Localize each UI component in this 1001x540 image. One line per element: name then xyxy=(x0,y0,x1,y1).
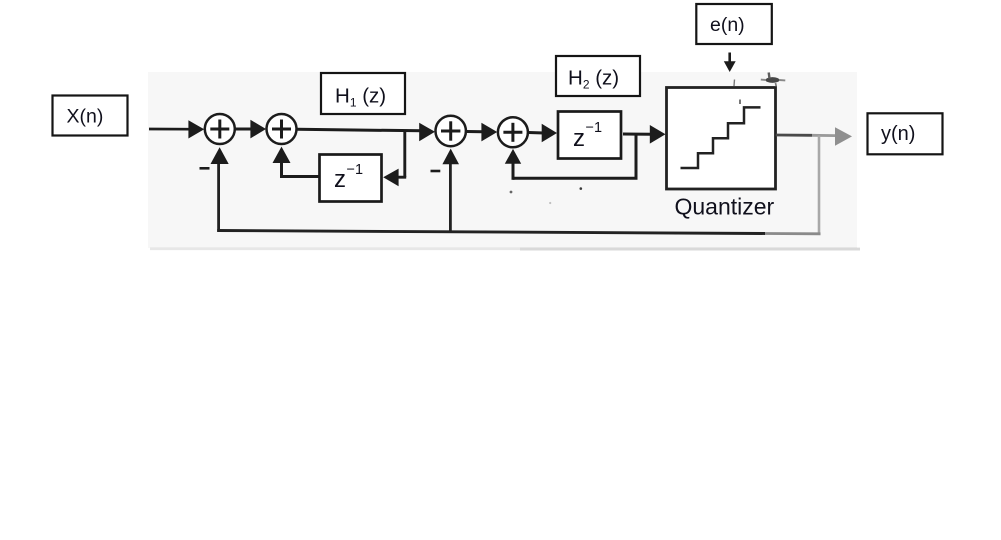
minus sign at S3 xyxy=(431,170,441,173)
scanned paper region xyxy=(148,72,860,251)
staircase symbol inside quantizer xyxy=(681,100,761,169)
summer S3 xyxy=(436,116,466,146)
faint dot artifact 2 xyxy=(580,187,583,190)
feedback vertical to summer S3 xyxy=(442,149,459,232)
wire S1 to S2 xyxy=(236,120,267,139)
svg-text:e(n): e(n) xyxy=(710,14,745,36)
box e(n) xyxy=(696,4,772,44)
svg-text:y(n): y(n) xyxy=(881,123,915,145)
bottom feedback wire black part xyxy=(217,231,765,234)
box H1(z) xyxy=(321,73,405,114)
summer S4 xyxy=(498,117,528,147)
delay box Z1A xyxy=(320,155,382,202)
wire Z1B output to quantizer xyxy=(623,125,666,144)
wire S4 to Z1B xyxy=(529,124,557,143)
tick mark above quantizer xyxy=(733,80,736,87)
box H2(z) xyxy=(556,56,640,96)
wire quantizer output (dark segment) xyxy=(776,134,812,137)
faint dot artifact 3 xyxy=(549,202,551,204)
faint dot artifact xyxy=(510,191,513,194)
box y(n) xyxy=(868,113,943,154)
wire input from left to summer S1 xyxy=(149,120,204,138)
bottom feedback wire gray right part xyxy=(765,232,821,235)
wire Z1A output to summer S2 xyxy=(273,147,320,178)
wire arrow e(n) down into quantizer xyxy=(724,53,736,73)
svg-text:−1: −1 xyxy=(347,162,364,178)
svg-text:X(n): X(n) xyxy=(67,106,104,128)
smudge artifact above quantizer right xyxy=(761,73,786,87)
box X(n) xyxy=(53,96,128,136)
feedback vertical to summer S1 xyxy=(211,147,229,232)
quantizer box U1 xyxy=(667,88,776,190)
svg-text:Quantizer: Quantizer xyxy=(675,194,775,220)
wire S2 to S3 with branch to Z1A xyxy=(297,123,435,141)
summer S2 xyxy=(267,114,297,144)
wire quantizer output gray segment xyxy=(812,134,836,137)
svg-text:H1 (z): H1 (z) xyxy=(335,85,386,110)
wire branch down into Z1A input xyxy=(383,130,406,187)
gray arrowhead into y(n) xyxy=(835,127,852,146)
svg-text:z: z xyxy=(573,125,585,152)
summer S1 xyxy=(205,114,235,144)
delay box Z1B xyxy=(558,112,621,159)
wire S3 to S4 xyxy=(467,123,497,142)
svg-text:z: z xyxy=(334,166,346,193)
wire feedback Z1B output down to summer S4 xyxy=(505,134,638,180)
minus sign at S1 xyxy=(200,167,210,170)
svg-text:H2 (z): H2 (z) xyxy=(568,67,619,92)
gray feedback vertical from output xyxy=(818,136,821,234)
svg-text:−1: −1 xyxy=(586,120,603,136)
